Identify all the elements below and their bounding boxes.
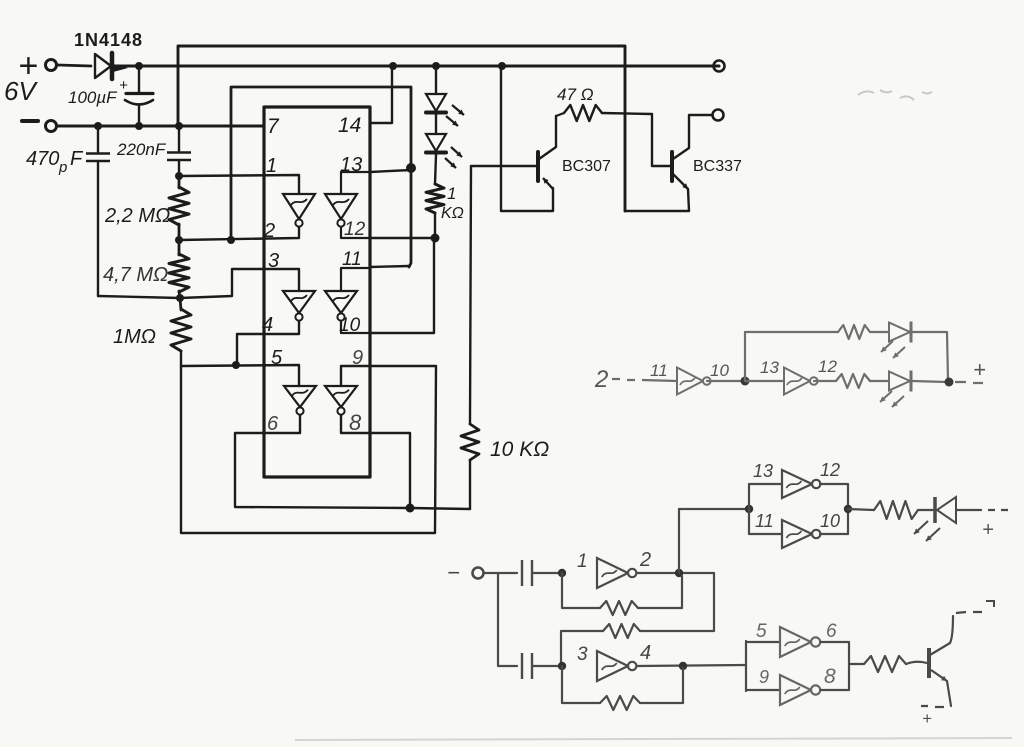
svg-text:1N4148: 1N4148 xyxy=(74,30,143,50)
svg-text:F: F xyxy=(70,148,84,170)
terminal osc input xyxy=(473,568,484,579)
svg-text:6V: 6V xyxy=(4,76,38,106)
LED sub1 upper xyxy=(889,323,910,342)
svg-text:11: 11 xyxy=(650,361,668,380)
node pin14 riser junction xyxy=(389,62,397,70)
svg-text:2: 2 xyxy=(594,366,608,393)
wire sub1 upper to right xyxy=(912,332,948,381)
node sub1 right xyxy=(945,378,954,387)
LED D3 xyxy=(426,134,446,151)
svg-text:13: 13 xyxy=(760,358,779,377)
wire pin 6 loop xyxy=(235,415,410,508)
svg-text:1: 1 xyxy=(577,551,588,572)
svg-text:12: 12 xyxy=(818,357,837,376)
op-amp U1F inverter pins9-8 xyxy=(325,386,357,407)
terminal minus xyxy=(46,121,57,132)
transistor Q1 BC307 xyxy=(536,152,540,181)
wire pin 11 tie xyxy=(370,266,409,267)
wire inverter3 output xyxy=(637,665,746,666)
svg-text:+: + xyxy=(922,709,932,728)
svg-text:4,7 MΩ: 4,7 MΩ xyxy=(103,264,168,286)
wire block outputs join xyxy=(821,642,849,690)
resistor 4.7M xyxy=(178,240,181,255)
svg-text:+: + xyxy=(119,77,128,94)
svg-text:10: 10 xyxy=(339,315,361,336)
wire pin 8 loop xyxy=(341,415,410,508)
wire feedback top riser xyxy=(231,87,411,267)
wire LED2 to R 1k xyxy=(435,155,436,184)
node C1 bottom xyxy=(135,122,143,130)
svg-text:6: 6 xyxy=(267,413,279,435)
node inverter1 input xyxy=(558,569,566,577)
transistor Q3 output xyxy=(927,648,931,678)
wire negative rail to IC pin 7 xyxy=(58,125,264,128)
node pin2 tie xyxy=(227,236,235,244)
svg-text:14: 14 xyxy=(338,114,361,137)
wire pin 13 tie xyxy=(370,170,411,172)
node diode-cap junction xyxy=(135,62,143,70)
svg-text:10: 10 xyxy=(710,361,729,380)
dashed emitter xyxy=(921,706,944,707)
wire pin 2 output xyxy=(179,227,299,240)
svg-text:220nF: 220nF xyxy=(116,140,167,159)
op-amp inverter 3-4 osc xyxy=(597,651,628,681)
diode D1 1N4148 xyxy=(95,54,111,78)
node 470pF junction xyxy=(94,122,102,130)
svg-text:470: 470 xyxy=(26,148,59,170)
op-amp U1A inverter pins1-2 xyxy=(283,194,315,219)
wire inverter1 output xyxy=(637,572,714,574)
wire pin 14 to positive rail xyxy=(370,66,392,123)
wire block out to resistor xyxy=(849,663,864,665)
label - (battery negative) xyxy=(22,119,38,123)
node inverter3 input xyxy=(558,662,566,670)
op-amp inverter 1-2 osc xyxy=(597,558,628,588)
op-amp inverter 5-6 blk xyxy=(780,627,811,657)
wire pin 12 to 1k node xyxy=(370,237,434,239)
svg-text:12: 12 xyxy=(344,219,366,240)
dashed collector xyxy=(956,612,982,613)
wire 1M bottom to pin5 xyxy=(181,351,299,386)
svg-text:2,2 MΩ: 2,2 MΩ xyxy=(104,205,170,227)
terminal output positive xyxy=(714,61,725,72)
resistor 1k xyxy=(426,184,444,213)
wire dashed from node 2 xyxy=(612,379,677,381)
resistor 1M xyxy=(180,298,181,310)
svg-text:6: 6 xyxy=(826,621,837,642)
wire 470pF to pin3 node xyxy=(98,269,299,298)
wire pin 4 to pin 5 tie xyxy=(237,318,299,365)
wire 1k to pin12 node xyxy=(434,213,436,238)
svg-text:5: 5 xyxy=(756,621,767,642)
svg-text:1MΩ: 1MΩ xyxy=(113,326,156,348)
svg-text:5: 5 xyxy=(271,347,283,369)
wire to resistor sub1 lower xyxy=(745,380,784,382)
node pin2 junction xyxy=(175,236,183,244)
svg-text:KΩ: KΩ xyxy=(441,205,464,222)
svg-text:10: 10 xyxy=(820,511,840,531)
capacitor 220nF xyxy=(178,126,180,151)
svg-text:3: 3 xyxy=(577,644,588,665)
wire sub1 upper branch xyxy=(745,332,838,381)
capacitor C1 100uF polarized xyxy=(138,66,140,92)
LED sub1 upper arrows xyxy=(881,341,893,352)
node inverter3 out xyxy=(679,662,687,670)
svg-text:9: 9 xyxy=(759,667,769,687)
wire plus terminal to diode xyxy=(58,65,91,66)
svg-text:8: 8 xyxy=(824,665,836,688)
svg-text:7: 7 xyxy=(267,115,280,138)
faint bottom scan line xyxy=(295,738,1012,740)
svg-text:4: 4 xyxy=(262,314,273,336)
node 4.7M bottom junction xyxy=(176,294,184,302)
wire outer wrap pins 9-4-5 net xyxy=(181,366,436,533)
resistor drv xyxy=(874,501,918,519)
wire to 10K bottom xyxy=(410,508,470,509)
resistor 47R xyxy=(556,113,564,116)
op-amp inverter 11-10 sub1 xyxy=(677,368,703,395)
node pin4-5 tie xyxy=(232,361,240,369)
svg-text:47 Ω: 47 Ω xyxy=(557,85,594,104)
node LED chain junction xyxy=(432,62,440,70)
svg-text:2: 2 xyxy=(263,220,275,242)
capacitor 470pF xyxy=(97,126,99,152)
op-amp inverter 9-8 blk xyxy=(780,675,811,705)
wire node2 to driver inputs xyxy=(679,508,749,510)
resistor 2.2M xyxy=(178,176,181,188)
wire inverter out to node xyxy=(707,380,745,382)
svg-text:3: 3 xyxy=(268,250,279,272)
svg-text:1: 1 xyxy=(266,155,277,177)
dashed to plus sub1 xyxy=(955,382,983,383)
smudge faint marks xyxy=(858,90,932,100)
svg-text:1: 1 xyxy=(447,184,456,203)
resistor sub1 lower xyxy=(836,374,870,388)
svg-text:p: p xyxy=(58,159,67,176)
svg-text:13: 13 xyxy=(753,461,773,481)
op-amp U1C inverter pins3-4 xyxy=(283,291,315,313)
dashed plus drv xyxy=(988,509,1008,511)
node inverter1 out xyxy=(675,569,683,577)
svg-text:9: 9 xyxy=(352,347,363,369)
LED drv xyxy=(933,497,937,523)
node pin12 junction xyxy=(431,234,440,243)
svg-text:8: 8 xyxy=(349,410,362,435)
LED sub1 lower arrows xyxy=(880,391,892,402)
op-amp U1D inverter pins11-10 xyxy=(325,291,357,313)
wire top return rail xyxy=(178,46,625,211)
svg-text:13: 13 xyxy=(340,154,362,176)
wavy wire to transistor base xyxy=(906,662,927,664)
svg-text:BC307: BC307 xyxy=(562,158,611,175)
svg-text:+: + xyxy=(973,357,986,382)
svg-text:−: − xyxy=(447,560,460,585)
wire driver outputs join xyxy=(820,484,848,534)
svg-text:10 KΩ: 10 KΩ xyxy=(490,438,549,461)
wire osc input split xyxy=(484,573,517,666)
capacitor osc lower xyxy=(521,653,523,679)
op-amp inverter 13-12 sub1 xyxy=(784,368,810,395)
wire 47R to BC337 base xyxy=(602,113,670,166)
svg-text:12: 12 xyxy=(820,460,840,480)
op-amp inverter 13-12 drv xyxy=(782,470,812,498)
LED D2 xyxy=(426,94,446,111)
wire positive rail to LED1 xyxy=(435,66,437,94)
wire LED1 to LED2 xyxy=(435,114,437,134)
wire pin12-pin10 tie xyxy=(370,238,434,333)
node 220nF junction xyxy=(175,122,183,130)
op-amp inverter 11-10 drv xyxy=(782,520,812,548)
node pin1 junction xyxy=(175,172,183,180)
svg-text:100µF: 100µF xyxy=(68,88,118,107)
resistor blk xyxy=(864,656,906,672)
wire LED to plus node sub1 xyxy=(912,381,947,382)
svg-text:4: 4 xyxy=(640,642,651,664)
node pin13 junction xyxy=(406,163,416,173)
svg-text:+: + xyxy=(982,519,994,541)
LED D3 arrows xyxy=(451,147,462,157)
svg-text:11: 11 xyxy=(342,249,362,270)
node sub1 split xyxy=(741,377,750,386)
LED D2 arrows xyxy=(452,105,464,115)
wire pin 1 input xyxy=(179,175,299,193)
resistor 10K xyxy=(469,460,471,509)
node pin6-8 junction xyxy=(406,504,415,513)
op-amp U1B inverter pins13-12 xyxy=(325,194,357,219)
terminal plus xyxy=(46,60,57,71)
LED drv arrows xyxy=(914,521,928,534)
LED sub1 lower xyxy=(889,372,910,391)
feedback resistor inverter3 xyxy=(562,666,600,703)
wire positive rail xyxy=(112,65,719,68)
wire up to LED driver block xyxy=(678,509,680,573)
IC U1 hex inverter body xyxy=(264,107,370,477)
resistor sub1 upper xyxy=(838,325,870,339)
wire osc out to block inputs xyxy=(746,641,780,691)
svg-text:2: 2 xyxy=(639,549,651,571)
capacitor osc upper xyxy=(521,560,523,586)
transistor Q2 BC337 xyxy=(670,152,674,181)
wire driver to resistor xyxy=(848,509,874,510)
wire LED drv right xyxy=(956,509,981,511)
wire 10K to BC307 base xyxy=(470,166,536,424)
svg-text:11: 11 xyxy=(755,511,774,531)
coupling resistor osc xyxy=(640,573,714,631)
node BC307 emitter junction xyxy=(498,62,506,70)
feedback resistor inverter1 xyxy=(562,573,600,608)
op-amp U1E inverter pins5-6 xyxy=(284,386,316,407)
terminal output 2 xyxy=(713,110,724,121)
svg-text:BC337: BC337 xyxy=(693,158,742,175)
